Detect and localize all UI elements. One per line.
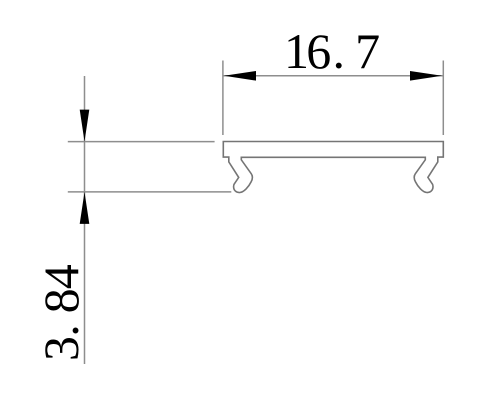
dim 3.84: top arrow (points down) xyxy=(80,110,90,142)
dim 16.7: extension line left xyxy=(222,61,224,136)
svg-text:7: 7 xyxy=(355,23,380,79)
profile cover cross-section outline xyxy=(223,142,443,193)
dim 16.7: left arrow xyxy=(224,71,256,81)
svg-text:3. 84: 3. 84 xyxy=(33,264,89,361)
dim 3.84: dimension line xyxy=(84,76,86,364)
dim 16.7: right arrow xyxy=(410,71,442,81)
svg-text:16.: 16. xyxy=(284,23,345,79)
dim 3.84: extension line bottom xyxy=(68,191,232,193)
dim 3.84: extension line top xyxy=(68,141,215,143)
dim 3.84: bottom arrow (points up) xyxy=(80,192,90,224)
dim 16.7: extension line right xyxy=(442,61,444,136)
dim 16.7: dimension line xyxy=(223,75,443,77)
